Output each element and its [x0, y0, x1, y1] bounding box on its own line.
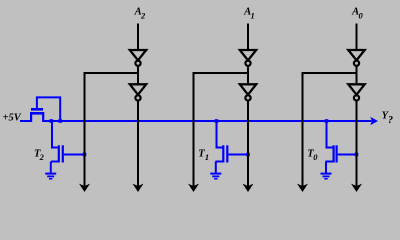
transistor T0 gate bar	[336, 145, 338, 162]
transistor T2 gate lead	[64, 154, 86, 156]
branch wire to A1' column	[194, 73, 249, 187]
inverter 1 of A0 column	[348, 50, 364, 60]
output arrowhead Y	[370, 117, 378, 125]
wire bubble1 to inverter2 (A0)	[356, 66, 358, 83]
output wire of A0 buffer chain down	[356, 101, 358, 187]
transistor T0 source arm	[326, 161, 335, 163]
junction dot T1 gate on A1 buffered line	[246, 153, 250, 157]
arrow down on A2' branch line	[79, 184, 90, 192]
arrow down on A0' branch line	[297, 184, 308, 192]
input wire A1	[247, 24, 249, 50]
ground under T1	[210, 173, 221, 175]
transistor T1 source wire	[215, 162, 217, 173]
arrow down on A2 buffered line	[133, 184, 144, 192]
transistor T0 gate lead	[338, 154, 358, 156]
branch wire to A0' column	[303, 73, 357, 187]
arrow down on A0 buffered line	[351, 184, 362, 192]
transistor T0 source wire	[325, 162, 327, 173]
svg-text:+5V: +5V	[3, 113, 22, 124]
junction dot T1 drain tap on Y	[215, 119, 219, 123]
svg-text:0: 0	[313, 152, 318, 162]
node Y bus wire (blue, +5V side segment)	[20, 120, 31, 122]
svg-text:1: 1	[251, 11, 255, 21]
junction dot T2 gate on A2' line	[83, 153, 87, 157]
junction dot T0 gate on A0 buffered line	[355, 153, 359, 157]
wire bubble1 to inverter2 (A2)	[137, 66, 139, 83]
input wire A0	[356, 24, 358, 50]
svg-text:2: 2	[39, 152, 45, 162]
output wire of A2 buffer chain down	[137, 101, 139, 187]
transistor T2 gate bar	[62, 145, 64, 162]
depletion load transistor QL channel bar	[30, 112, 44, 115]
junction dot QL drain tap on Y	[50, 119, 54, 123]
QL source leg	[30, 114, 32, 122]
svg-text:1: 1	[205, 152, 209, 162]
transistor T0 channel bar	[333, 145, 335, 162]
inverter 2 of A1 column	[240, 84, 256, 94]
transistor T2 drain arm	[51, 147, 60, 149]
transistor T1 source arm	[216, 161, 225, 163]
bubble of inverter 2 (A2)	[135, 95, 140, 100]
input wire A2	[137, 24, 139, 50]
transistor T2 channel bar	[58, 145, 60, 162]
ground under T0	[321, 173, 332, 175]
ground under T2	[45, 173, 56, 175]
inverter 1 of A2 column	[130, 50, 146, 60]
QL gate-to-source feedback wire	[37, 97, 60, 120]
QL drain leg	[42, 114, 44, 122]
arrow down on A1 buffered line	[243, 184, 254, 192]
bubble of inverter 1 (A0)	[354, 61, 359, 66]
transistor T2 source arm	[51, 161, 60, 163]
svg-text:?: ?	[388, 115, 393, 126]
node Y bus wire (blue, main segment to output)	[43, 120, 371, 122]
transistor T1 gate lead	[228, 154, 249, 156]
transistor T2 source wire	[50, 162, 52, 173]
transistor T2 drain wire	[51, 122, 53, 148]
svg-text:2: 2	[140, 11, 146, 21]
junction dot T0 drain tap on Y	[325, 119, 329, 123]
bubble of inverter 2 (A1)	[245, 95, 250, 100]
arrow down on A1' branch line	[188, 184, 199, 192]
inverter 2 of A0 column	[348, 84, 364, 94]
transistor T1 drain wire	[216, 122, 218, 148]
transistor T1 drain arm	[216, 147, 225, 149]
transistor T0 drain arm	[326, 147, 335, 149]
bubble of inverter 1 (A2)	[135, 61, 140, 66]
inverter 2 of A2 column	[130, 84, 146, 94]
transistor T1 channel bar	[222, 145, 224, 162]
depletion load transistor QL gate bar	[31, 108, 43, 111]
junction dot QL gate tap on Y	[58, 119, 62, 123]
bubble of inverter 1 (A1)	[245, 61, 250, 66]
transistor T0 drain wire	[326, 122, 328, 148]
branch wire to A2' pulldown column	[85, 73, 139, 187]
inverter 1 of A1 column	[240, 50, 256, 60]
bubble of inverter 2 (A0)	[354, 95, 359, 100]
output wire of A1 buffer chain down	[247, 101, 249, 187]
wire bubble1 to inverter2 (A1)	[247, 66, 249, 83]
transistor T1 gate bar	[226, 145, 228, 162]
